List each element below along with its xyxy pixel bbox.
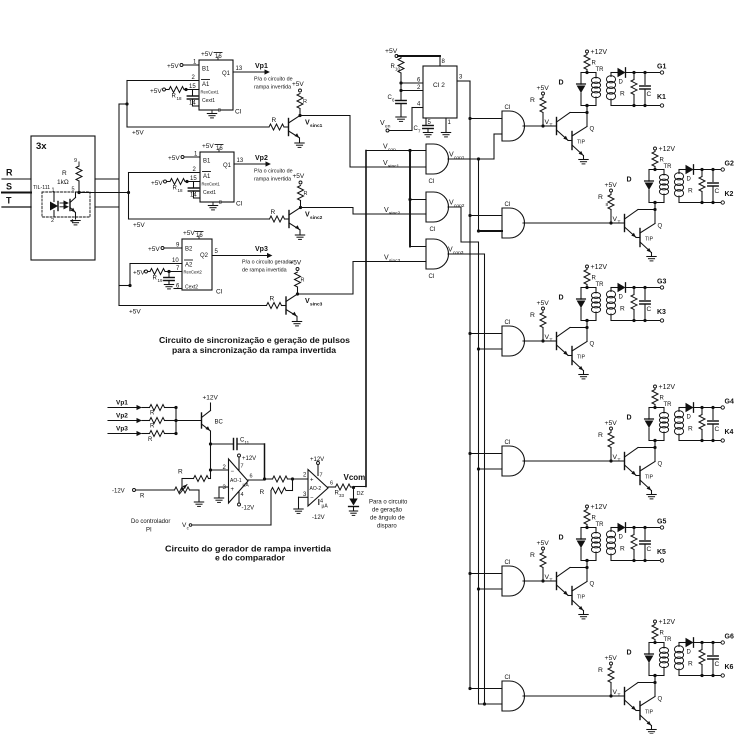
svg-text:CI: CI — [505, 675, 511, 681]
svg-text:7: 7 — [241, 464, 244, 470]
svg-text:+12V: +12V — [659, 619, 676, 626]
svg-text:CI: CI — [430, 227, 436, 233]
svg-text:R: R — [140, 494, 145, 500]
svg-text:R: R — [598, 667, 603, 674]
svg-text:+5V: +5V — [292, 81, 304, 88]
svg-text:B1: B1 — [203, 159, 211, 165]
svg-text:para a sincronização da rampa: para a sincronização da rampa invertida — [172, 345, 336, 355]
svg-text:4: 4 — [320, 499, 323, 505]
svg-text:de geração: de geração — [372, 508, 403, 514]
svg-text:R: R — [6, 168, 13, 178]
svg-text:R: R — [150, 424, 155, 430]
svg-text:10: 10 — [172, 258, 179, 264]
svg-text:R: R — [598, 194, 603, 201]
svg-text:CI: CI — [429, 274, 435, 280]
svg-text:+12V: +12V — [659, 146, 676, 153]
svg-text:-12V: -12V — [242, 506, 255, 512]
svg-text:R: R — [688, 426, 693, 433]
svg-text:TR: TR — [664, 637, 673, 643]
svg-text:TIP: TIP — [645, 237, 654, 243]
svg-text:Vp1: Vp1 — [255, 63, 268, 70]
svg-text:Q: Q — [658, 462, 663, 468]
svg-text:AO-1: AO-1 — [230, 478, 242, 484]
svg-text:D: D — [619, 80, 624, 86]
svg-text:P/a o circuito gerador: P/a o circuito gerador — [242, 260, 293, 266]
svg-text:G6: G6 — [725, 634, 734, 641]
svg-text:R: R — [304, 191, 308, 197]
svg-text:D: D — [687, 650, 692, 656]
svg-text:-12V: -12V — [112, 489, 125, 495]
svg-text:Vp2: Vp2 — [255, 155, 268, 162]
svg-text:9: 9 — [74, 158, 77, 164]
svg-text:+12V: +12V — [659, 384, 676, 391]
svg-text:Q1: Q1 — [222, 71, 231, 77]
svg-text:D: D — [619, 295, 624, 301]
svg-text:4: 4 — [71, 219, 74, 225]
svg-text:sinc2: sinc2 — [389, 210, 401, 216]
svg-text:D: D — [559, 535, 564, 542]
svg-text:K5: K5 — [657, 549, 666, 556]
svg-text:C: C — [715, 661, 720, 668]
svg-text:D: D — [627, 177, 632, 184]
svg-text:TR: TR — [596, 67, 605, 73]
svg-text:TR: TR — [596, 282, 605, 288]
svg-text:Q1: Q1 — [223, 163, 232, 169]
svg-text:Q2: Q2 — [200, 253, 209, 259]
svg-text:+12V: +12V — [310, 457, 324, 463]
svg-text:Do controlador: Do controlador — [131, 519, 170, 525]
svg-text:R: R — [620, 91, 625, 98]
svg-text:A1: A1 — [202, 82, 210, 88]
svg-text:R: R — [660, 158, 665, 164]
svg-text:8: 8 — [442, 59, 446, 65]
svg-text:R: R — [620, 306, 625, 313]
svg-text:D: D — [559, 295, 564, 302]
svg-text:+5V: +5V — [183, 230, 195, 237]
svg-text:con2: con2 — [454, 203, 465, 209]
svg-text:B1: B1 — [202, 67, 210, 73]
svg-text:+5V: +5V — [385, 48, 398, 55]
svg-text:Vp3: Vp3 — [116, 426, 128, 433]
svg-text:G3: G3 — [657, 279, 666, 286]
svg-text:3: 3 — [223, 485, 227, 491]
svg-text:10: 10 — [395, 67, 401, 72]
svg-text:con3: con3 — [453, 250, 464, 256]
svg-text:Vp1: Vp1 — [116, 400, 128, 407]
svg-text:4: 4 — [417, 102, 421, 108]
svg-text:+12V: +12V — [242, 456, 256, 462]
svg-text:RexCext1: RexCext1 — [202, 182, 221, 187]
svg-text:33: 33 — [339, 493, 345, 498]
svg-text:6: 6 — [250, 474, 253, 480]
svg-text:TR: TR — [596, 522, 605, 528]
svg-text:8: 8 — [218, 108, 221, 114]
svg-text:14: 14 — [189, 101, 196, 107]
svg-text:R: R — [303, 99, 307, 105]
svg-text:R: R — [660, 396, 665, 402]
svg-text:R: R — [530, 552, 535, 559]
svg-text:PI: PI — [146, 528, 152, 534]
svg-text:TIP: TIP — [577, 595, 586, 601]
svg-text:TIP: TIP — [645, 475, 654, 481]
svg-text:+5V: +5V — [605, 655, 618, 662]
svg-text:sinc3: sinc3 — [310, 301, 323, 307]
svg-text:Q: Q — [658, 224, 663, 230]
svg-text:16: 16 — [196, 233, 203, 239]
svg-text:+12V: +12V — [591, 49, 608, 56]
svg-text:G4: G4 — [725, 399, 734, 406]
svg-text:+12V: +12V — [591, 264, 608, 271]
svg-text:+5V: +5V — [133, 270, 145, 277]
svg-text:BC: BC — [215, 420, 224, 426]
svg-text:+5V: +5V — [133, 222, 145, 229]
svg-text:RexCext2: RexCext2 — [184, 270, 203, 275]
svg-text:CI: CI — [236, 201, 243, 208]
svg-text:R: R — [271, 209, 276, 216]
svg-text:14: 14 — [190, 193, 197, 199]
svg-text:+5V: +5V — [150, 88, 162, 95]
svg-text:μA: μA — [243, 483, 250, 489]
svg-text:+5V: +5V — [132, 130, 144, 137]
svg-text:CI: CI — [505, 202, 511, 208]
svg-text:8: 8 — [219, 200, 222, 206]
svg-text:+5V: +5V — [605, 420, 618, 427]
svg-text:Vp3: Vp3 — [255, 246, 268, 253]
svg-text:CI: CI — [505, 320, 511, 326]
svg-text:AO-2: AO-2 — [310, 486, 322, 492]
svg-text:T: T — [6, 196, 12, 206]
svg-text:CI: CI — [505, 105, 511, 111]
svg-text:C: C — [715, 188, 720, 195]
svg-text:Cext2: Cext2 — [185, 285, 198, 291]
svg-text:19: 19 — [158, 278, 164, 283]
svg-text:D: D — [687, 415, 692, 421]
svg-text:R: R — [660, 631, 665, 637]
svg-text:Cext1: Cext1 — [203, 190, 216, 196]
svg-text:4: 4 — [241, 492, 244, 498]
svg-text:D: D — [619, 535, 624, 541]
svg-text:CI: CI — [429, 179, 435, 185]
svg-text:TR: TR — [664, 402, 673, 408]
svg-text:D: D — [627, 650, 632, 657]
svg-text:R: R — [592, 276, 597, 282]
svg-text:e do comparador: e do comparador — [215, 553, 286, 563]
svg-text:+5V: +5V — [151, 180, 163, 187]
svg-text:rampa invertida: rampa invertida — [254, 85, 291, 91]
svg-text:R: R — [150, 411, 155, 417]
svg-text:D: D — [627, 415, 632, 422]
svg-text:R: R — [688, 661, 693, 668]
svg-text:K1: K1 — [657, 94, 666, 101]
svg-text:K3: K3 — [657, 309, 666, 316]
svg-text:K4: K4 — [725, 429, 734, 436]
svg-text:R: R — [148, 437, 153, 443]
svg-text:+5V: +5V — [537, 85, 550, 92]
svg-text:+5V: +5V — [537, 300, 550, 307]
svg-text:C: C — [715, 426, 720, 433]
svg-text:CI: CI — [235, 109, 242, 116]
svg-text:sinc1: sinc1 — [388, 163, 400, 169]
svg-text:18: 18 — [177, 96, 183, 101]
svg-text:1kΩ: 1kΩ — [57, 179, 69, 186]
svg-text:R: R — [270, 296, 275, 303]
svg-text:13: 13 — [237, 158, 244, 164]
svg-text:−: − — [231, 469, 235, 475]
svg-text:Q: Q — [658, 697, 663, 703]
svg-text:B2: B2 — [185, 247, 193, 253]
svg-text:sinc3: sinc3 — [389, 258, 401, 264]
svg-text:DZ: DZ — [357, 491, 365, 497]
svg-text:-12V: -12V — [312, 515, 325, 521]
svg-text:6: 6 — [392, 98, 395, 103]
svg-text:R: R — [688, 188, 693, 195]
svg-text:+5V: +5V — [293, 173, 305, 180]
svg-text:CI: CI — [505, 560, 511, 566]
svg-text:C: C — [647, 306, 652, 313]
svg-text:3x: 3x — [36, 141, 47, 152]
svg-text:CI 2: CI 2 — [433, 82, 445, 89]
svg-text:18: 18 — [178, 188, 184, 193]
svg-text:Q: Q — [590, 127, 595, 133]
svg-text:G1: G1 — [657, 64, 666, 71]
svg-text:−: − — [310, 496, 314, 502]
svg-text:+: + — [231, 487, 235, 493]
svg-text:+: + — [310, 478, 314, 484]
svg-text:+5V: +5V — [537, 540, 550, 547]
svg-text:de rampa invertida: de rampa invertida — [242, 268, 287, 274]
svg-text:6: 6 — [330, 481, 333, 487]
svg-text:A1: A1 — [203, 174, 211, 180]
svg-text:G5: G5 — [657, 519, 666, 526]
svg-text:R: R — [272, 117, 277, 124]
svg-text:A2: A2 — [185, 263, 193, 269]
svg-text:con1: con1 — [454, 155, 465, 161]
svg-text:sinc2: sinc2 — [310, 215, 323, 221]
svg-text:R: R — [530, 312, 535, 319]
svg-text:8: 8 — [606, 202, 609, 208]
svg-text:+5V: +5V — [129, 309, 141, 316]
svg-text:D: D — [687, 177, 692, 183]
svg-text:rampa invertida: rampa invertida — [254, 177, 291, 183]
svg-text:R: R — [592, 516, 597, 522]
svg-text:TIP: TIP — [577, 140, 586, 146]
svg-text:13: 13 — [236, 66, 243, 72]
svg-text:C: C — [647, 546, 652, 553]
svg-text:CI: CI — [216, 289, 223, 296]
svg-text:K2: K2 — [725, 191, 734, 198]
svg-text:RexCext1: RexCext1 — [201, 90, 220, 95]
svg-text:1: 1 — [448, 120, 452, 126]
svg-text:5: 5 — [72, 187, 75, 193]
svg-text:+5V: +5V — [148, 246, 160, 253]
svg-text:+5V: +5V — [201, 51, 213, 58]
svg-text:+5V: +5V — [290, 260, 302, 267]
svg-text:5: 5 — [215, 249, 219, 255]
svg-text:sinc1: sinc1 — [310, 123, 323, 129]
svg-text:P/a o circuito de: P/a o circuito de — [254, 169, 293, 175]
svg-text:disparo: disparo — [377, 524, 397, 530]
svg-text:Vcom: Vcom — [344, 473, 366, 482]
svg-text:G2: G2 — [725, 161, 734, 168]
svg-text:+5V: +5V — [167, 63, 179, 70]
svg-text:R: R — [62, 170, 67, 177]
svg-text:Para o circuito: Para o circuito — [369, 500, 408, 506]
svg-text:P/a o circuito de: P/a o circuito de — [254, 77, 293, 83]
svg-text:7: 7 — [418, 129, 421, 134]
svg-text:+5V: +5V — [202, 143, 214, 150]
svg-text:K6: K6 — [725, 664, 734, 671]
svg-text:+5V: +5V — [605, 182, 618, 189]
svg-text:2: 2 — [303, 473, 307, 479]
svg-text:R: R — [598, 432, 603, 439]
svg-text:2: 2 — [51, 218, 54, 224]
svg-text:R: R — [260, 489, 265, 496]
svg-text:7: 7 — [320, 473, 323, 479]
svg-text:Q: Q — [590, 582, 595, 588]
svg-text:R: R — [301, 278, 305, 284]
svg-text:+5V: +5V — [168, 155, 180, 162]
svg-text:Vp2: Vp2 — [116, 413, 128, 420]
svg-text:16: 16 — [216, 146, 223, 152]
svg-text:TIL-111: TIL-111 — [33, 185, 50, 191]
svg-text:Q: Q — [590, 342, 595, 348]
svg-text:R: R — [530, 97, 535, 104]
svg-text:R: R — [592, 61, 597, 67]
svg-text:Cext1: Cext1 — [202, 98, 215, 104]
svg-text:TIP: TIP — [577, 355, 586, 361]
svg-text:16: 16 — [215, 54, 222, 60]
svg-text:de ângulo de: de ângulo de — [370, 516, 405, 522]
svg-text:R: R — [178, 469, 183, 476]
svg-text:TR: TR — [664, 164, 673, 170]
svg-text:C: C — [647, 91, 652, 98]
svg-text:en: en — [385, 124, 391, 129]
svg-text:3: 3 — [459, 75, 463, 81]
svg-text:S: S — [6, 182, 12, 192]
svg-text:CI: CI — [505, 440, 511, 446]
svg-text:11: 11 — [245, 440, 250, 445]
svg-text:R: R — [620, 546, 625, 553]
svg-text:D: D — [559, 80, 564, 87]
svg-text:+12V: +12V — [591, 504, 608, 511]
svg-text:+12V: +12V — [203, 395, 219, 402]
svg-text:TIP: TIP — [645, 710, 654, 716]
svg-text:Circuito de sincronização e ge: Circuito de sincronização e geração de p… — [159, 335, 350, 345]
